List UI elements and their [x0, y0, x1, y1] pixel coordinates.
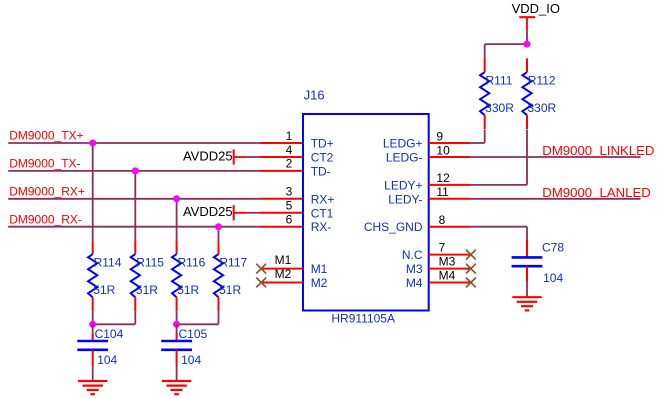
- svg-text:R116: R116: [178, 255, 206, 269]
- wire node to C105: [176, 324, 178, 333]
- wire node to C104: [92, 324, 94, 333]
- svg-text:M1: M1: [311, 262, 328, 276]
- wire DM9000_RX- horizontal: [8, 226, 260, 228]
- svg-text:M3: M3: [439, 254, 456, 268]
- svg-text:DM9000_LANLED: DM9000_LANLED: [542, 185, 651, 200]
- pin 2 stub: [260, 170, 303, 172]
- junction VDD node: [524, 41, 531, 48]
- svg-text:51R: 51R: [219, 283, 241, 297]
- wire DM9000_TX+ horizontal: [8, 142, 260, 144]
- no-connect M2: [256, 278, 266, 288]
- junction DM9000_RX+ tap: [173, 195, 180, 202]
- no-connect M3: [466, 264, 476, 274]
- resistor R114: [88, 240, 122, 311]
- wire DM9000_TX- drop to resistor: [134, 171, 136, 241]
- pin C104 top: [92, 333, 94, 341]
- wire DM9000_RX+ drop to resistor: [176, 199, 178, 241]
- svg-text:C104: C104: [95, 327, 124, 341]
- wire C104 to ground: [92, 366, 94, 382]
- svg-text:DM9000_TX-: DM9000_TX-: [9, 157, 80, 171]
- wire C78 to ground: [526, 281, 528, 297]
- svg-text:7: 7: [439, 240, 446, 254]
- pin C78 bottom: [526, 266, 528, 281]
- wire AVDD25 #2 to pin: [247, 212, 259, 214]
- wire R116 bottom to node: [176, 311, 178, 324]
- svg-text:M4: M4: [439, 268, 456, 282]
- op-amp U1 : magnetics jack J16 HR911105A body: [303, 114, 429, 311]
- pin 11 stub: [429, 198, 470, 200]
- svg-text:HR911105A: HR911105A: [331, 312, 395, 326]
- power port AVDD25 #2: [183, 204, 247, 220]
- svg-text:9: 9: [436, 129, 443, 143]
- pin C78 top: [526, 240, 528, 257]
- svg-text:5: 5: [286, 199, 293, 213]
- wire C105 to ground: [176, 366, 178, 382]
- wire DM9000_TX- horizontal: [8, 170, 260, 172]
- pin M1 stub: [261, 268, 303, 270]
- svg-text:C78: C78: [542, 240, 564, 254]
- svg-text:CHS_GND: CHS_GND: [364, 220, 423, 234]
- svg-text:LEDY-: LEDY-: [388, 192, 422, 206]
- capacitor C78: [512, 240, 565, 285]
- svg-text:AVDD25: AVDD25: [183, 204, 233, 219]
- svg-text:M4: M4: [406, 276, 423, 290]
- pin M3 stub: [429, 268, 470, 270]
- junction C104 node: [89, 321, 96, 328]
- svg-text:DM9000_LINKLED: DM9000_LINKLED: [542, 143, 654, 158]
- svg-text:51R: 51R: [136, 283, 158, 297]
- svg-text:R112: R112: [528, 73, 556, 87]
- svg-text:3: 3: [286, 185, 293, 199]
- svg-text:AVDD25: AVDD25: [183, 148, 233, 163]
- resistor R117: [214, 240, 248, 311]
- no-connect M1: [256, 264, 266, 274]
- wire DM9000_TX+ drop to resistor: [92, 143, 94, 240]
- svg-text:104: 104: [97, 353, 117, 367]
- svg-text:VDD_IO: VDD_IO: [512, 1, 560, 16]
- svg-text:J16: J16: [304, 87, 325, 102]
- svg-text:N.C: N.C: [402, 248, 423, 262]
- resistor R115: [131, 240, 165, 311]
- pin 6 stub: [260, 226, 303, 228]
- svg-text:R114: R114: [94, 255, 122, 269]
- svg-text:CT2: CT2: [311, 151, 334, 165]
- resistor R112: [522, 58, 556, 129]
- pin M4 stub: [429, 282, 470, 284]
- power port AVDD25 #1: [183, 148, 247, 164]
- pin C105 bottom: [176, 350, 178, 366]
- svg-text:LEDY+: LEDY+: [384, 178, 422, 192]
- pin 1 stub: [260, 142, 303, 144]
- svg-text:51R: 51R: [177, 283, 199, 297]
- svg-text:12: 12: [436, 171, 450, 185]
- capacitor C105: [161, 327, 207, 367]
- wire DM9000_RX+ horizontal: [8, 198, 260, 200]
- capacitor C104: [77, 327, 123, 367]
- svg-text:51R: 51R: [93, 283, 115, 297]
- pin 9 stub: [429, 142, 470, 144]
- svg-text:330R: 330R: [485, 101, 514, 115]
- pin 8 stub: [429, 226, 470, 228]
- wire R117 bottom to node: [177, 311, 219, 324]
- pin C105 top: [176, 333, 178, 341]
- resistor R111: [480, 58, 514, 129]
- svg-text:8: 8: [439, 213, 446, 227]
- svg-text:2: 2: [286, 157, 293, 171]
- wire pin9 to R111: [470, 130, 485, 143]
- pin 7 stub: [429, 254, 470, 256]
- wire pin11 DM9000_LANLED: [470, 198, 641, 200]
- resistor R116: [172, 240, 206, 311]
- svg-text:R111: R111: [486, 73, 513, 87]
- svg-text:LEDG-: LEDG-: [386, 151, 423, 165]
- pin C104 bottom: [92, 350, 94, 366]
- svg-text:6: 6: [286, 213, 293, 227]
- ground GND1: [78, 381, 107, 394]
- svg-text:TD+: TD+: [311, 137, 334, 151]
- junction C105 node: [173, 321, 180, 328]
- junction DM9000_RX- tap: [215, 223, 222, 230]
- no-connect M4: [466, 278, 476, 288]
- svg-text:DM9000_RX-: DM9000_RX-: [9, 212, 82, 226]
- svg-text:RX-: RX-: [311, 220, 332, 234]
- ground GND2: [162, 381, 191, 394]
- svg-text:M2: M2: [311, 276, 328, 290]
- svg-text:104: 104: [181, 353, 201, 367]
- svg-text:RX+: RX+: [311, 192, 335, 206]
- svg-text:104: 104: [543, 271, 563, 285]
- wire R111 top: [485, 44, 527, 58]
- pin 4 stub: [259, 156, 303, 158]
- pin 3 stub: [260, 198, 303, 200]
- pin 5 stub: [259, 212, 303, 214]
- svg-text:R115: R115: [136, 255, 164, 269]
- svg-text:1: 1: [286, 129, 293, 143]
- wire pin12 to R112: [470, 130, 527, 185]
- svg-text:C105: C105: [179, 327, 208, 341]
- wire AVDD25 #1 to pin: [247, 156, 259, 158]
- no-connect pin7: [466, 250, 476, 260]
- pin M2 stub: [261, 282, 303, 284]
- svg-text:M3: M3: [406, 262, 423, 276]
- svg-text:CT1: CT1: [311, 206, 334, 220]
- wire R114 bottom to node: [92, 311, 94, 324]
- svg-text:10: 10: [436, 143, 450, 157]
- ground GND3: [512, 297, 541, 310]
- svg-text:LEDG+: LEDG+: [383, 137, 423, 151]
- pin 10 stub: [429, 156, 470, 158]
- wire pin8 to C78: [470, 227, 527, 240]
- wire DM9000_RX- drop to resistor: [218, 227, 220, 241]
- wire pin10 DM9000_LINKLED: [470, 156, 641, 158]
- pin 12 stub: [429, 184, 470, 186]
- svg-text:DM9000_RX+: DM9000_RX+: [9, 184, 85, 198]
- svg-text:TD-: TD-: [311, 164, 331, 178]
- junction DM9000_TX+ tap: [89, 140, 96, 147]
- wire R115 bottom to node: [93, 311, 136, 324]
- junction DM9000_TX- tap: [132, 167, 139, 174]
- svg-text:DM9000_TX+: DM9000_TX+: [9, 129, 83, 143]
- svg-text:R117: R117: [219, 255, 247, 269]
- svg-text:330R: 330R: [528, 101, 557, 115]
- svg-text:11: 11: [436, 185, 449, 199]
- svg-text:4: 4: [286, 143, 293, 157]
- svg-text:M1: M1: [275, 253, 292, 267]
- wire VDD_IO stem lower: [526, 31, 528, 44]
- power port VDD_IO: [512, 1, 560, 31]
